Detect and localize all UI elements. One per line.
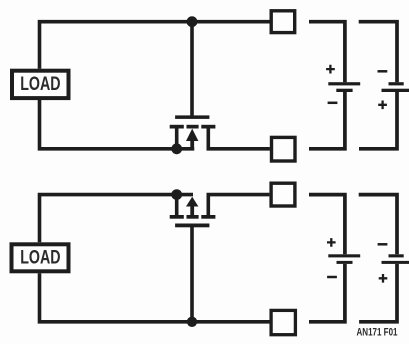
battery B1 short plate (336, 89, 352, 92)
battery B4 long plate (382, 261, 409, 264)
wire: battery B2 positive lead (top circuit) (359, 92, 397, 149)
load box LOAD (bottom circuit) (12, 244, 69, 271)
mosfet Q2 body channel segment (187, 215, 199, 219)
wire: battery B1 positive lead (top circuit) (309, 22, 345, 82)
label + of B3 (327, 238, 336, 247)
battery B3 short plate (337, 261, 353, 264)
wire: gate lead down from top rail (top circuit) (190, 23, 194, 116)
node: junction dot gate/bottom-rail (bottom circuit) (187, 317, 197, 327)
wire: battery B3 negative lead (bottom circuit) (309, 264, 345, 322)
label + of B4 (379, 274, 388, 283)
svg-text:LOAD: LOAD (20, 73, 60, 95)
label + of B1 (326, 65, 335, 74)
mosfet Q1 drain channel segment (201, 125, 215, 129)
label - of B1 (328, 102, 338, 105)
battery B4 short plate (389, 254, 404, 257)
wire: Q2 source stub (175, 196, 179, 216)
mosfet Q1 body arrow head (186, 129, 198, 141)
wire: top rail + left drop to LOAD (top circuit) (40, 22, 270, 69)
wire: battery B1 negative lead (top circuit) (309, 92, 345, 149)
label - of B2 (378, 70, 388, 73)
svg-text:AN171 F01: AN171 F01 (357, 327, 398, 339)
label - of B3 (327, 276, 337, 279)
mosfet Q1 gate bar (175, 115, 209, 119)
battery B3 long plate (328, 254, 360, 257)
connector square lower (bottom circuit) (271, 310, 295, 334)
mosfet Q2 source channel segment (170, 215, 184, 219)
mosfet Q2 body arrow head (186, 197, 198, 207)
wire: Q2 drain to upper connector (bottom circuit) (208, 195, 269, 217)
mosfet Q1 body arrow shaft (190, 138, 194, 151)
battery B1 long plate (328, 82, 360, 85)
wire: battery B4 positive lead (bottom circuit) (359, 264, 397, 322)
node: junction dot gate/top-rail (top circuit) (187, 16, 198, 27)
connector square lower (top circuit) (272, 137, 296, 161)
mosfet Q1 body channel segment (187, 125, 199, 129)
mosfet Q2 body arrow shaft (190, 206, 194, 217)
wire: top rail + left drop to LOAD (bottom circuit) (40, 195, 194, 243)
wire: LOAD bottom to bottom rail (top circuit) (40, 100, 195, 149)
connector square upper (bottom circuit) (271, 183, 295, 206)
node: Q1 source junction dot on bottom rail (171, 143, 182, 154)
connector square upper (top circuit) (271, 11, 295, 33)
wire: Q2 gate lead down to bottom rail (190, 227, 194, 322)
wire: battery B4 negative lead (bottom circuit) (359, 195, 397, 255)
mosfet Q2 drain channel segment (201, 215, 215, 219)
wire: Q1 drain to lower connector (top circuit) (208, 127, 270, 149)
wire: battery B2 negative lead (top circuit) (359, 22, 397, 82)
node: Q2 source junction dot on top rail (171, 189, 182, 200)
svg-text:LOAD: LOAD (20, 246, 60, 268)
battery B2 short plate (389, 82, 404, 85)
mosfet Q1 source channel segment (170, 125, 184, 129)
load box LOAD (top circuit) (12, 71, 69, 98)
wire: battery B3 positive lead (bottom circuit) (309, 195, 345, 255)
label - of B4 (378, 243, 388, 246)
mosfet Q2 gate bar (175, 224, 209, 228)
battery B2 long plate (382, 89, 409, 92)
label + of B2 (378, 101, 387, 110)
wire: Q1 source stub (175, 127, 179, 148)
wire: LOAD bottom to bottom rail (bottom circuit) (40, 273, 270, 322)
